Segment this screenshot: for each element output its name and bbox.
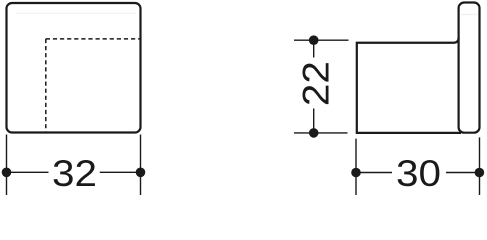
- svg-text:30: 30: [396, 152, 441, 194]
- svg-text:32: 32: [52, 152, 97, 194]
- svg-text:22: 22: [294, 61, 336, 106]
